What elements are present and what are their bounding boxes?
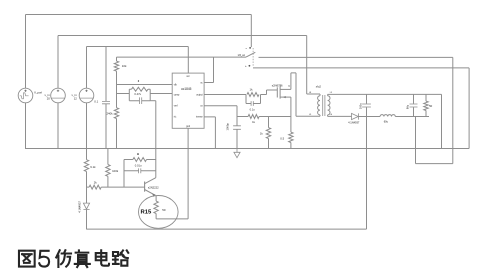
svg-text:2: 2 xyxy=(138,79,140,83)
svg-text:R15: R15 xyxy=(141,210,153,216)
capacitor C_base leads xyxy=(124,170,156,172)
diode D1 1N4937 (right) xyxy=(352,113,359,119)
op-amp U1 uc1845 body xyxy=(172,73,204,128)
wire secondary bottom lead xyxy=(328,115,335,117)
capacitor C_base plates xyxy=(139,168,141,173)
wire collector riser x=155.3 xyxy=(155,101,157,178)
transistor Q2 source stub xyxy=(280,96,291,98)
switch S1 left lead arm xyxy=(246,52,255,57)
transistor Q1 emitter arrow xyxy=(152,194,156,197)
switch S1 bottom contact xyxy=(249,65,251,67)
svg-text:12: 12 xyxy=(74,96,78,100)
wire V2 top riser xyxy=(57,36,59,89)
svg-text:1k: 1k xyxy=(250,88,254,92)
resistor R_L 50 xyxy=(424,101,428,110)
transistor Q2 drain stub xyxy=(280,88,291,90)
wire top loop V1 net (y=14) xyxy=(26,14,252,16)
svg-text:0.47u: 0.47u xyxy=(134,92,141,96)
capacitor C_comp leads xyxy=(129,100,150,102)
inductor L1 60u xyxy=(380,115,395,117)
resistor R_b horizontal lead xyxy=(87,186,90,188)
wire comp output to U1 COMP pin xyxy=(150,93,172,95)
svg-text:9.1k: 9.1k xyxy=(90,165,96,169)
source V1 plus mark xyxy=(24,90,26,92)
wire gate box right vertical xyxy=(260,95,262,104)
wire secondary bottom to diode xyxy=(335,115,352,117)
wire cs filter line y=116 xyxy=(237,116,248,118)
svg-text:20: 20 xyxy=(47,96,51,100)
wire top loop V3 net (y=46) xyxy=(87,46,189,48)
svg-text:vfb: vfb xyxy=(174,85,178,87)
transistor Q2 channel bar xyxy=(279,86,281,98)
svg-text:2k: 2k xyxy=(94,180,98,184)
wire diode to inductor xyxy=(358,116,380,118)
wire feedback line right segment to x=452 xyxy=(259,56,453,58)
source V2 plus mark xyxy=(57,90,59,92)
wire riser to U1 VCC pin x=188 xyxy=(187,47,189,74)
wire base line to Q1 xyxy=(101,186,144,188)
svg-text:xfo2: xfo2 xyxy=(316,84,322,88)
svg-text:s2N2222: s2N2222 xyxy=(148,186,159,190)
capacitor C2 riser top xyxy=(413,94,415,103)
svg-text:10k: 10k xyxy=(122,64,127,68)
resistor R_9.1k xyxy=(84,160,88,172)
wire to MOSFET gate xyxy=(261,90,278,95)
svg-text:0.1u: 0.1u xyxy=(250,108,256,112)
resistor R_240k xyxy=(114,108,118,119)
wire C1 bottom long riser to bottom rail xyxy=(366,107,368,229)
capacitor C_comp plates xyxy=(140,97,142,104)
resistor R_comp zigzag xyxy=(132,87,149,91)
ellipse highlight around R15 xyxy=(139,196,179,229)
wire top rail right riser x=441 xyxy=(441,94,443,148)
svg-text:240k: 240k xyxy=(107,111,114,115)
wire C2 bottom xyxy=(413,107,415,116)
svg-text:0.01u: 0.01u xyxy=(135,163,142,167)
wire U1 rc pin to rail xyxy=(204,117,215,149)
wire V3 branch below rail xyxy=(86,149,88,160)
wire riser x=468.6 to ground rail xyxy=(468,68,470,149)
svg-text:100u: 100u xyxy=(358,103,362,109)
svg-text:0.1: 0.1 xyxy=(94,99,98,103)
svg-text:L6: L6 xyxy=(330,114,333,116)
source V1 pulse (circle) xyxy=(18,88,33,103)
wire source down to sense resistor xyxy=(290,97,292,132)
svg-text:gnd: gnd xyxy=(186,126,191,128)
svg-text:50: 50 xyxy=(162,208,166,212)
wire drain jog up-over xyxy=(291,73,296,116)
svg-text:100k: 100k xyxy=(112,169,119,173)
ground symbol xyxy=(234,149,240,158)
wire U1 cs pin xyxy=(204,106,237,126)
svg-text:1000p: 1000p xyxy=(225,123,229,131)
caption figure 5 simulation circuit xyxy=(19,250,128,267)
svg-text:q: q xyxy=(288,84,290,87)
wire comp box right vertical xyxy=(149,89,151,101)
svg-text:isense: isense xyxy=(196,117,203,119)
wire U1 vc pin to feedback line xyxy=(204,57,213,82)
svg-text:s2N6786: s2N6786 xyxy=(272,83,283,87)
svg-text:output: output xyxy=(196,94,203,97)
svg-text:L9: L9 xyxy=(309,114,312,116)
svg-text:vref: vref xyxy=(174,105,178,108)
capacitor C1 riser top xyxy=(366,94,368,103)
wire diode to bottom rail xyxy=(86,210,88,230)
wire primary top lead xyxy=(307,94,320,96)
wire drain to transformer primary bottom xyxy=(296,115,320,117)
wire V2 bottom to rail xyxy=(57,103,59,149)
wire cs filter to sense node xyxy=(259,116,291,118)
wire V1 top riser xyxy=(25,15,27,89)
transistor Q2 source arrow xyxy=(283,96,286,98)
svg-text:uc1845: uc1845 xyxy=(181,87,192,91)
resistor R_base zigzag xyxy=(133,158,147,162)
svg-text:V_pwl: V_pwl xyxy=(34,90,42,94)
wire switch lower net y=67.4 xyxy=(253,67,469,69)
resistor R_s 0.5 zigzag xyxy=(289,132,293,142)
wire C_vcc bottom to rail xyxy=(105,104,107,149)
svg-text:b: b xyxy=(245,66,247,68)
resistor R_f zigzag xyxy=(248,115,259,119)
wire load bottom riser x=415 xyxy=(415,116,417,163)
wire gate box left vertical xyxy=(245,95,247,104)
transformer TX secondary winding xyxy=(328,96,330,115)
wire inductor to load bottom rail xyxy=(395,116,429,118)
capacitor C_g leads xyxy=(246,103,261,105)
wire feedback horizontal y=163 xyxy=(416,163,453,165)
wire U1 output pin to gate network xyxy=(204,94,246,96)
resistor R_100k xyxy=(106,165,110,177)
wire divider top from feedback line xyxy=(116,57,118,61)
svg-text:0.5: 0.5 xyxy=(280,136,284,140)
svg-text:60u: 60u xyxy=(384,119,389,123)
svg-text:tv5_a1: tv5_a1 xyxy=(238,54,246,57)
svg-text:L5: L5 xyxy=(330,92,333,94)
wire comp box left vertical xyxy=(128,89,130,101)
wire top loop V2 net (y=34) xyxy=(58,35,307,37)
transistor Q1 collector xyxy=(145,178,156,184)
wire comp network feed y=93 xyxy=(117,93,130,95)
wire switch top riser x=250.8 xyxy=(250,15,252,48)
svg-text:B: B xyxy=(137,152,139,156)
resistor R_bleed xyxy=(266,128,270,139)
svg-text:1k: 1k xyxy=(252,120,255,124)
wire load resistor bottom lead xyxy=(425,111,427,117)
source V3 plus mark xyxy=(85,90,87,92)
transformer TX primary winding xyxy=(318,96,320,115)
svg-text:4 1N4937: 4 1N4937 xyxy=(77,201,81,213)
wire secondary top rail y=93.9 xyxy=(335,93,442,95)
wire main ground rail y=148 xyxy=(25,148,469,150)
capacitor C_g plates xyxy=(251,101,253,106)
capacitor C1 plates xyxy=(362,104,371,107)
svg-text:comp: comp xyxy=(174,95,180,97)
wire V3 bottom to rail xyxy=(86,103,88,149)
transistor Q1 emitter xyxy=(145,190,155,196)
switch S1 top contact xyxy=(249,47,251,49)
wire R15 bottom xyxy=(156,214,188,219)
wire C_t bottom to rail xyxy=(236,130,238,149)
source V2 VIN 20V (circle) xyxy=(51,88,66,103)
wire VIN riser to transformer primary x=306 xyxy=(306,36,308,95)
wire V1 bottom to rail xyxy=(25,103,27,149)
wire V3 top riser xyxy=(86,47,88,89)
wire R_100k to base line xyxy=(107,176,109,187)
wire bleed resistor riser x=268 xyxy=(268,117,270,128)
wire VFB tap y=84 to U1 xyxy=(117,84,173,86)
resistor R15 xyxy=(154,201,158,213)
source V3 12V (circle) xyxy=(79,88,94,103)
transistor Q2 gate bar xyxy=(276,87,278,97)
wire VCC net drop x=105.5 xyxy=(105,47,107,102)
svg-text:50: 50 xyxy=(429,104,433,108)
resistor R_10k xyxy=(114,61,118,71)
wire divider middle xyxy=(116,71,118,108)
source V1 waveform xyxy=(20,93,29,99)
wire primary bottom lead xyxy=(319,115,321,116)
wire to diode xyxy=(86,172,88,204)
wire bleed to rail xyxy=(268,139,270,149)
wire comp box bottom extension to collector line xyxy=(150,100,156,102)
wire load resistor top lead xyxy=(425,94,427,101)
capacitor C_vcc plates xyxy=(102,101,110,103)
wire U1 GND riser x=187.6 xyxy=(187,128,189,219)
wire feedback line left segment (y=56.6) xyxy=(117,56,247,58)
svg-text:vcc: vcc xyxy=(186,76,190,78)
resistor R_base leads xyxy=(124,159,156,161)
source V2 chord line xyxy=(51,97,64,99)
resistor R_100k riser from rail xyxy=(107,149,109,165)
source V3 chord line xyxy=(80,97,93,99)
svg-text:60u: 60u xyxy=(405,104,409,109)
wire R_s to rail xyxy=(290,143,292,149)
svg-text:4 1N4937: 4 1N4937 xyxy=(348,120,360,124)
svg-text:vc: vc xyxy=(200,83,203,85)
transformer TX core xyxy=(323,95,325,116)
switch S1 dashed actuator xyxy=(252,48,254,66)
wire divider bottom to rail xyxy=(116,119,118,149)
wire secondary top lead xyxy=(328,94,335,95)
wire feedback riser x=452 down xyxy=(452,57,454,163)
wire base box left vertical xyxy=(123,160,125,188)
resistor R_g 1k zigzag xyxy=(247,93,259,97)
svg-text:r/c: r/c xyxy=(174,116,177,119)
svg-text:a: a xyxy=(246,48,248,50)
svg-text:1k: 1k xyxy=(260,131,263,135)
diode D2 1N4937 (down) xyxy=(83,203,89,209)
wire emitter to R15 xyxy=(155,196,157,202)
resistor R_b zigzag xyxy=(89,185,101,189)
transistor Q1 base bar xyxy=(144,182,146,192)
capacitor C2 plates xyxy=(410,104,418,107)
wire bottom return rail y=228.6 xyxy=(86,228,366,230)
capacitor C_t 1000p plates xyxy=(233,126,241,130)
svg-text:cs: cs xyxy=(200,106,203,108)
resistor R_comp 0.47u leads xyxy=(129,88,150,90)
